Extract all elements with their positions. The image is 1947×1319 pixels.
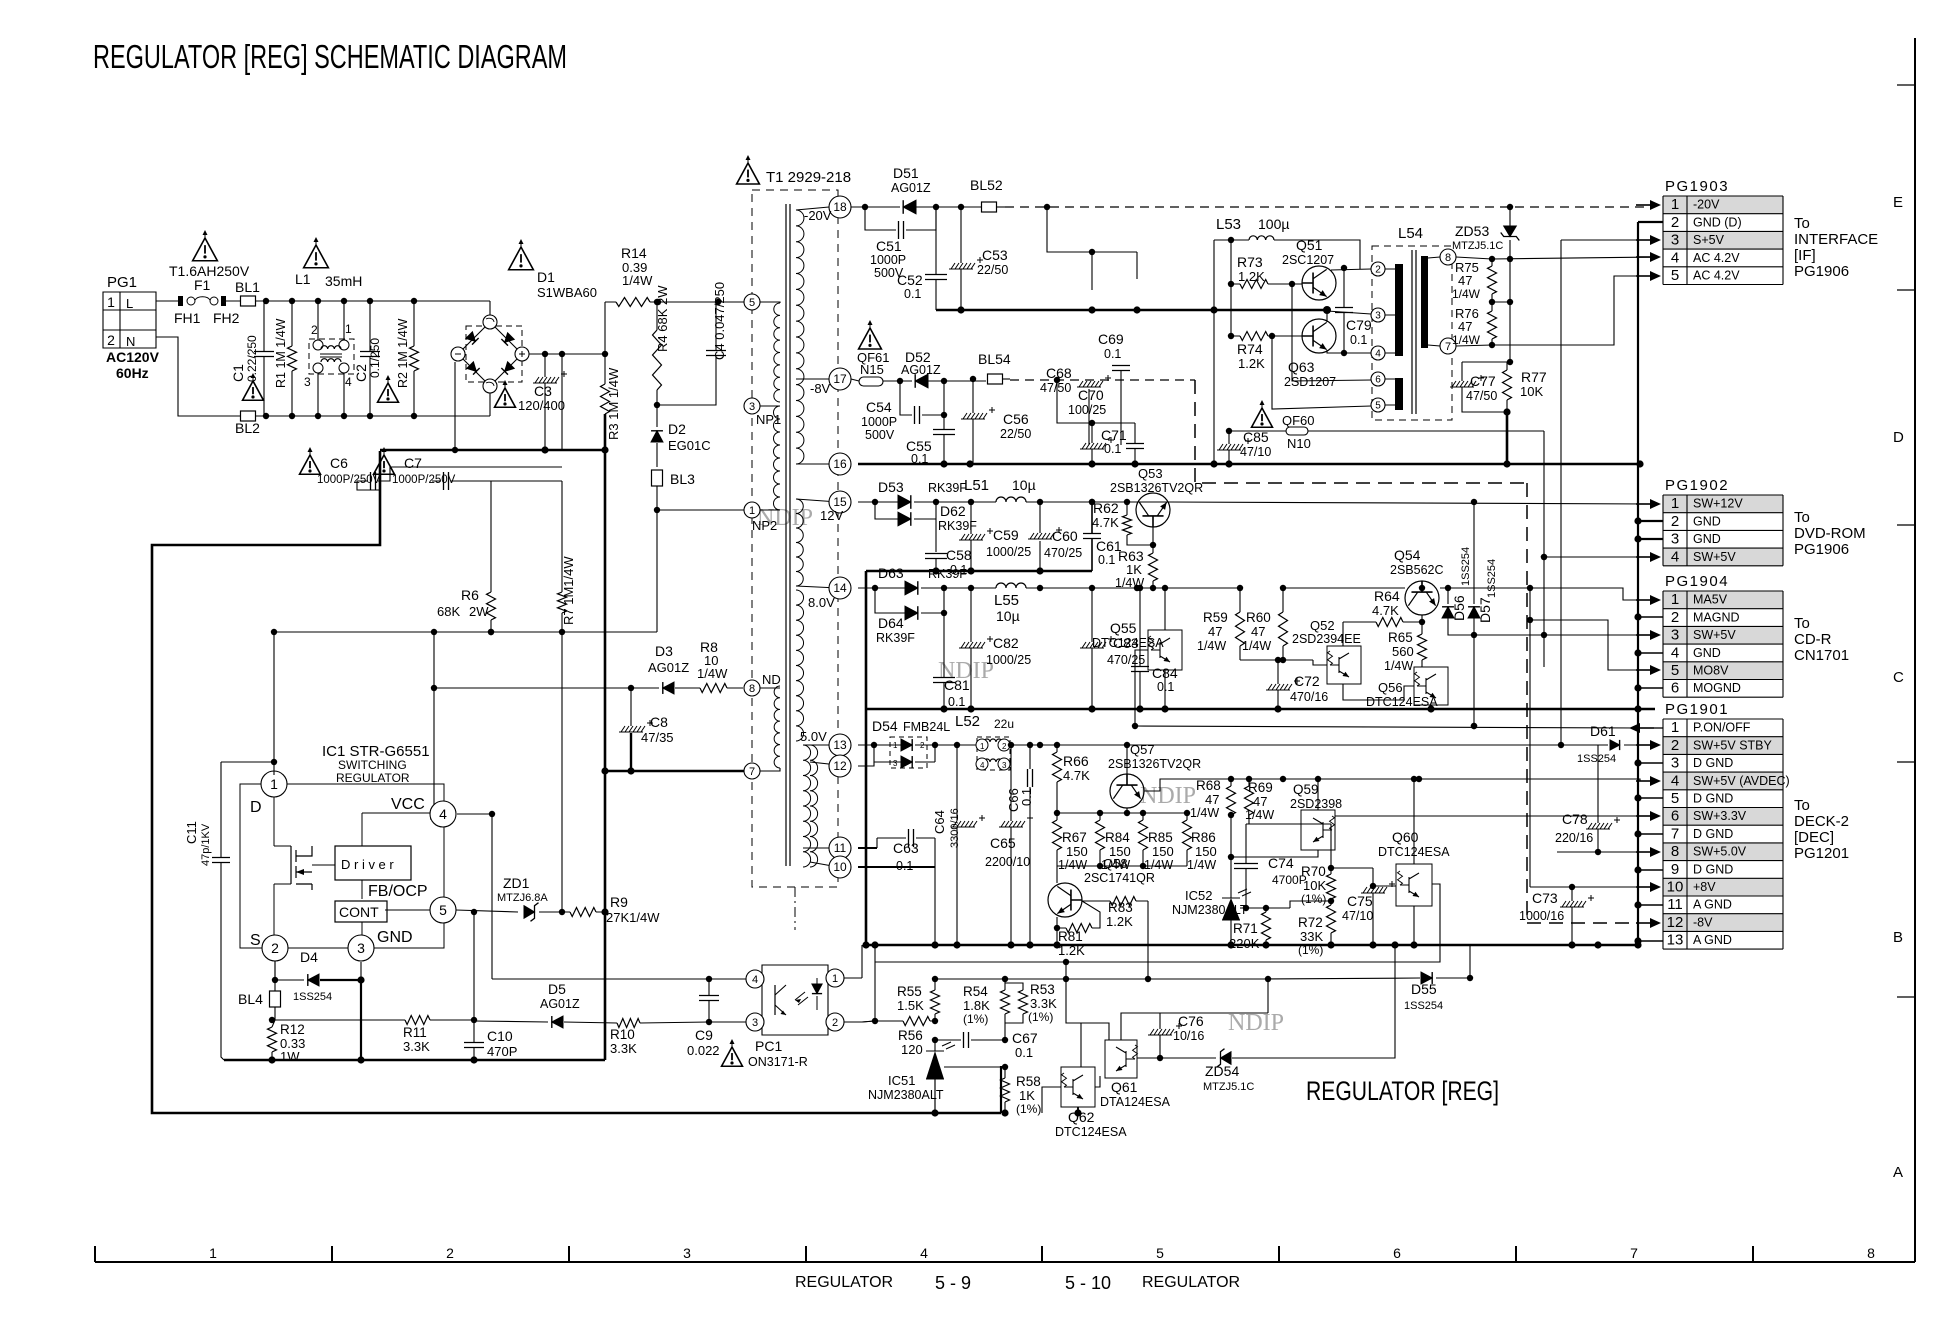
svg-text:R14: R14 — [621, 245, 647, 261]
electrolytic C77 — [1450, 362, 1510, 412]
svg-text:1000/16: 1000/16 — [1519, 909, 1564, 923]
svg-text:PG1201: PG1201 — [1794, 845, 1849, 862]
svg-text:0.1: 0.1 — [896, 859, 913, 873]
resistor R56 — [875, 1017, 935, 1058]
svg-text:1: 1 — [209, 1245, 217, 1261]
digital transistor Q59 — [1231, 776, 1342, 857]
capacitor C84 — [1131, 585, 1178, 713]
svg-text:1SS254: 1SS254 — [1577, 753, 1616, 765]
svg-text:2: 2 — [446, 1245, 454, 1261]
svg-text:PG1904: PG1904 — [1665, 573, 1729, 590]
svg-text:DVD-ROM: DVD-ROM — [1794, 525, 1866, 542]
svg-text:4: 4 — [980, 761, 985, 770]
svg-text:R77: R77 — [1521, 369, 1547, 385]
svg-text:5.0V: 5.0V — [800, 729, 827, 744]
L54 pin5 — [1371, 398, 1385, 412]
thick pin7 row — [605, 770, 744, 773]
svg-text:D5: D5 — [548, 981, 566, 997]
svg-text:To: To — [1794, 509, 1810, 526]
svg-text:R6: R6 — [461, 587, 479, 603]
transformer T1 pin18 — [796, 207, 829, 210]
svg-text:3: 3 — [1375, 311, 1381, 322]
PG1901 gnd stub 5 — [1638, 797, 1663, 799]
wire fb box top — [875, 962, 1066, 979]
svg-text:T1 2929-218: T1 2929-218 — [766, 169, 851, 186]
svg-text:C81: C81 — [944, 677, 970, 693]
electrolytic C65 — [985, 742, 1033, 949]
svg-text:Q59: Q59 — [1293, 782, 1319, 797]
svg-text:10K: 10K — [1303, 878, 1326, 893]
svg-text:GND: GND — [1693, 514, 1721, 528]
PC1 pin2 — [826, 1013, 844, 1031]
svg-text:3: 3 — [1671, 627, 1679, 644]
svg-text:0.1: 0.1 — [1019, 788, 1034, 806]
diode bridge D1 — [451, 269, 597, 393]
ferrite bead BL54 — [978, 351, 1011, 384]
wire Q59 to SW3.3 — [1335, 815, 1650, 817]
svg-text:8.0V: 8.0V — [808, 595, 835, 610]
resistor R76 — [1452, 299, 1497, 347]
wire y1005 opto row — [874, 1004, 876, 1006]
svg-text:47/50: 47/50 — [1040, 381, 1071, 395]
wire D55 right down — [1469, 945, 1471, 978]
transformer T1 dashed box — [752, 190, 838, 887]
svg-text:1: 1 — [749, 505, 755, 517]
digital transistor Q52 — [1292, 618, 1414, 700]
svg-text:3.3K: 3.3K — [403, 1039, 430, 1054]
svg-text:2W: 2W — [469, 604, 489, 619]
PG1901 gnd stub 11 — [1638, 904, 1663, 906]
svg-text:1/4W: 1/4W — [1452, 287, 1481, 301]
svg-text:14: 14 — [833, 581, 847, 595]
svg-text:C51: C51 — [876, 238, 902, 254]
svg-text:Q61: Q61 — [1111, 1079, 1138, 1095]
wire C6 left drop — [357, 481, 380, 490]
svg-text:PG1903: PG1903 — [1665, 178, 1729, 195]
L54 pin7 — [1428, 345, 1440, 346]
svg-text:10: 10 — [833, 860, 847, 874]
warning triangle C3 — [495, 380, 516, 407]
svg-text:1000P/250V: 1000P/250V — [392, 474, 456, 486]
svg-text:SW+3.3V: SW+3.3V — [1693, 809, 1747, 823]
svg-text:R74: R74 — [1237, 341, 1263, 357]
wire VCC to opto feedback — [491, 814, 493, 979]
resistor R74 — [1228, 332, 1302, 372]
resistor R10 — [610, 1019, 712, 1057]
diode D62 — [875, 502, 977, 552]
svg-text:1: 1 — [1671, 719, 1679, 736]
svg-text:D62: D62 — [940, 503, 966, 519]
svg-text:C78: C78 — [1562, 811, 1588, 827]
capacitor C1 — [230, 301, 274, 416]
svg-text:PG1906: PG1906 — [1794, 263, 1849, 280]
svg-text:1/4W: 1/4W — [1144, 858, 1173, 872]
ferrite bead BL4 — [238, 961, 281, 1020]
svg-text:35mH: 35mH — [325, 273, 362, 289]
resistor R1 — [274, 301, 297, 416]
wire fb node row — [935, 978, 1268, 980]
IC1 CONT box — [335, 901, 387, 922]
L54 pin2 — [1371, 262, 1385, 276]
svg-text:6: 6 — [1375, 375, 1381, 386]
wire C78 down — [1556, 851, 1558, 853]
svg-text:R65: R65 — [1388, 630, 1413, 645]
svg-text:7: 7 — [1445, 341, 1451, 353]
svg-text:(1%): (1%) — [1016, 1102, 1041, 1116]
wire SWP5V AVDEC vertical — [1418, 779, 1420, 798]
svg-text:2: 2 — [1671, 737, 1679, 754]
svg-text:0.1: 0.1 — [1104, 347, 1121, 361]
svg-text:5: 5 — [1671, 267, 1679, 284]
svg-text:P.ON/OFF: P.ON/OFF — [1693, 721, 1751, 735]
svg-text:D55: D55 — [1411, 981, 1437, 997]
PG1903 arrow pin1 — [1636, 204, 1650, 206]
capacitor C81 — [933, 613, 970, 713]
svg-text:D3: D3 — [655, 643, 673, 659]
capacitor C71 — [1101, 423, 1144, 464]
svg-text:0.1: 0.1 — [1104, 442, 1121, 456]
svg-text:PG1901: PG1901 — [1665, 701, 1729, 718]
svg-text:C63: C63 — [893, 840, 919, 856]
svg-text:ND: ND — [762, 672, 781, 687]
svg-text:RK39F: RK39F — [928, 567, 967, 581]
digital transistor Q60 — [1378, 776, 1450, 949]
svg-text:8: 8 — [1671, 843, 1679, 860]
warning triangle D1 — [509, 239, 534, 270]
wire PONOFF row — [1135, 726, 1640, 728]
svg-text:R64: R64 — [1374, 588, 1400, 604]
svg-text:C64: C64 — [932, 810, 947, 834]
svg-text:(1%): (1%) — [963, 1012, 988, 1026]
svg-text:NP1: NP1 — [756, 412, 781, 427]
svg-text:SW+5V STBY: SW+5V STBY — [1693, 738, 1773, 752]
warning triangle QF61 — [859, 320, 882, 349]
svg-text:5: 5 — [1671, 790, 1679, 807]
svg-text:REGULATOR: REGULATOR — [336, 771, 410, 785]
svg-text:C75: C75 — [1347, 893, 1373, 909]
wire Q62 emitter gnd — [1074, 1109, 1081, 1116]
inductor L51 — [936, 477, 1171, 505]
transformer T1 pin7 — [744, 763, 760, 779]
svg-text:A GND: A GND — [1693, 933, 1732, 947]
IC1 internal wires — [312, 813, 430, 935]
electrolytic C60 — [1028, 502, 1082, 575]
svg-text:3.3K: 3.3K — [1030, 996, 1057, 1011]
svg-text:L55: L55 — [994, 592, 1019, 609]
svg-text:GND: GND — [1693, 532, 1721, 546]
svg-text:1000P: 1000P — [861, 415, 897, 429]
svg-text:0.1: 0.1 — [1098, 553, 1115, 567]
svg-text:2: 2 — [832, 1017, 838, 1029]
svg-text:D2: D2 — [668, 421, 686, 437]
PG1901 arrow pin2 — [1636, 744, 1650, 746]
resistor R2 — [396, 301, 419, 416]
thick vertical 866 — [865, 571, 868, 709]
svg-text:47: 47 — [1253, 794, 1267, 809]
svg-text:DTA124ESA: DTA124ESA — [1100, 1095, 1171, 1109]
svg-text:C8: C8 — [650, 714, 668, 730]
optocoupler PC1 — [762, 965, 828, 1035]
svg-text:C3: C3 — [534, 383, 552, 399]
transformer T1 primary winding upper — [774, 303, 780, 402]
svg-text:L54: L54 — [1398, 225, 1423, 242]
svg-text:22/50: 22/50 — [977, 263, 1008, 277]
resistor R11 — [403, 1016, 477, 1055]
PG1903 destination text — [1794, 215, 1878, 280]
IC1 Driver box — [335, 846, 411, 880]
svg-text:10/16: 10/16 — [1173, 1029, 1204, 1043]
svg-text:ZD1: ZD1 — [503, 875, 530, 891]
svg-text:R62: R62 — [1093, 500, 1119, 516]
svg-text:47: 47 — [1458, 273, 1472, 288]
PG1904 pin2 stub — [1638, 616, 1663, 618]
svg-text:C4 0.047/250: C4 0.047/250 — [712, 282, 727, 360]
svg-text:13: 13 — [1667, 932, 1684, 949]
svg-text:6: 6 — [1393, 1245, 1401, 1261]
svg-text:10µ: 10µ — [996, 608, 1020, 624]
diode D56 — [1442, 547, 1477, 638]
svg-text:2200/10: 2200/10 — [985, 855, 1030, 869]
svg-text:47/10: 47/10 — [1342, 909, 1373, 923]
svg-text:0.1: 0.1 — [1350, 333, 1367, 347]
svg-text:4: 4 — [1671, 548, 1679, 565]
svg-text:DECK-2: DECK-2 — [1794, 813, 1849, 830]
ferrite bead BL3 — [652, 470, 745, 632]
svg-text:D51: D51 — [893, 165, 919, 181]
svg-text:FH1: FH1 — [174, 310, 201, 326]
resistor R58 — [1001, 1067, 1042, 1117]
wire bridge plus up to R14 — [604, 302, 606, 354]
svg-text:3: 3 — [304, 375, 311, 389]
svg-text:A GND: A GND — [1693, 898, 1732, 912]
svg-text:4: 4 — [1671, 644, 1679, 661]
svg-text:R56: R56 — [898, 1028, 923, 1043]
capacitor C61 — [1083, 499, 1122, 571]
svg-text:47p/1KV: 47p/1KV — [200, 823, 212, 866]
svg-text:4: 4 — [1671, 772, 1679, 789]
ferrite bead BL2 — [235, 411, 260, 436]
svg-text:R72: R72 — [1298, 915, 1323, 930]
svg-text:0.1: 0.1 — [1015, 1045, 1033, 1060]
svg-text:[IF]: [IF] — [1794, 247, 1816, 264]
svg-text:R53: R53 — [1030, 982, 1055, 997]
svg-text:2: 2 — [1002, 742, 1007, 751]
resistor R68 — [1190, 778, 1236, 820]
transistor Q54 — [1390, 547, 1444, 622]
svg-text:B: B — [1893, 929, 1903, 946]
wire 5V rail after L52 — [1010, 744, 1561, 746]
electrolytic C76 — [1148, 1013, 1204, 1061]
transformer T1 pin17 — [796, 378, 829, 380]
PG1904 arrow pin5 — [1636, 669, 1650, 671]
svg-text:5 - 9: 5 - 9 — [935, 1273, 971, 1293]
wire +8V feed vertical — [1529, 588, 1531, 887]
bottom ruler line — [95, 1246, 1915, 1262]
svg-text:R1 1M 1/4W: R1 1M 1/4W — [274, 318, 288, 388]
transformer T1 pin3 NP1 — [744, 398, 760, 414]
svg-text:S: S — [250, 932, 261, 949]
wire to bridge vertices — [489, 301, 491, 416]
svg-text:3: 3 — [1671, 531, 1679, 548]
svg-text:N15: N15 — [860, 362, 884, 377]
wire C70 drop — [1057, 380, 1135, 423]
svg-text:N10: N10 — [1287, 436, 1311, 451]
svg-text:CN1701: CN1701 — [1794, 647, 1849, 664]
wire ZD53 down to C77 — [1509, 302, 1511, 362]
electrolytic C83 — [1080, 588, 1145, 713]
resistor R70 — [1301, 824, 1336, 906]
wire pin1 up to node — [273, 632, 275, 775]
svg-text:33K: 33K — [1300, 929, 1323, 944]
svg-text:2: 2 — [1671, 609, 1679, 626]
svg-text:47: 47 — [1458, 319, 1472, 334]
capacitor C63 — [877, 829, 935, 873]
transformer T1 pin5 — [744, 294, 760, 310]
svg-text:Q60: Q60 — [1392, 829, 1419, 845]
svg-text:2: 2 — [311, 323, 318, 337]
svg-text:2: 2 — [1671, 214, 1679, 231]
svg-text:C73: C73 — [1532, 890, 1558, 906]
resistor R54 — [963, 979, 1010, 1043]
wire C52 branch — [935, 207, 937, 310]
wire opto2 row — [862, 1021, 874, 1022]
svg-text:3: 3 — [749, 401, 755, 413]
wire R75 R76 mid to ZD53 — [1492, 301, 1510, 303]
svg-text:SW+5.0V: SW+5.0V — [1693, 845, 1747, 859]
svg-text:8: 8 — [749, 683, 755, 695]
inductor L55 — [944, 583, 1240, 624]
svg-text:68K: 68K — [437, 604, 460, 619]
svg-text:Q52: Q52 — [1310, 618, 1335, 633]
resistor R86 — [1183, 813, 1217, 872]
svg-text:PG1: PG1 — [107, 274, 137, 291]
warning triangle C1 — [243, 373, 264, 400]
svg-text:4.7K: 4.7K — [1092, 515, 1119, 530]
svg-text:12V: 12V — [820, 508, 843, 523]
capacitor C69 — [1098, 331, 1130, 445]
svg-text:AC 4.2V: AC 4.2V — [1693, 269, 1740, 283]
svg-text:3: 3 — [357, 940, 365, 956]
svg-text:NJM2380ALT: NJM2380ALT — [868, 1088, 944, 1102]
svg-text:C11: C11 — [184, 821, 199, 844]
svg-text:D53: D53 — [878, 479, 904, 495]
resistor R7 — [558, 481, 577, 912]
capacitor C2 — [353, 301, 382, 416]
bottom sheet captions — [795, 1273, 1240, 1293]
zener ZD1 — [497, 875, 565, 921]
svg-text:Q56: Q56 — [1378, 680, 1403, 695]
svg-text:GND: GND — [377, 929, 413, 946]
svg-text:ZD54: ZD54 — [1205, 1063, 1239, 1079]
thick GND(D) vertical — [1637, 222, 1639, 945]
svg-text:60Hz: 60Hz — [116, 365, 149, 381]
svg-text:R9: R9 — [610, 894, 628, 910]
ferrite bead BL1 — [235, 279, 260, 306]
svg-text:R3 1M 1/4W: R3 1M 1/4W — [606, 367, 621, 440]
svg-text:R12: R12 — [280, 1022, 305, 1037]
diode D51 — [851, 165, 982, 214]
svg-text:C71: C71 — [1101, 427, 1127, 443]
wire C7 left lead — [420, 480, 432, 482]
ferrite bead BL52 — [970, 177, 1005, 212]
electrolytic C59 — [959, 502, 1031, 575]
wire IC52 top — [1230, 815, 1232, 893]
wire T1 pin5 — [743, 301, 745, 303]
IC1 pin5 wire — [456, 910, 518, 912]
IC1 labels — [322, 743, 430, 785]
svg-text:IC51: IC51 — [888, 1073, 915, 1088]
electrolytic C3 — [518, 354, 567, 451]
capacitor C66 — [1006, 745, 1034, 945]
PC1 labels — [722, 1038, 808, 1069]
shunt regulator IC51 — [868, 1040, 955, 1113]
PC1 pin1 — [826, 969, 844, 987]
capacitor C52 — [897, 272, 947, 301]
zener ZD53 — [1452, 207, 1519, 302]
svg-text:2SD2398: 2SD2398 — [1290, 797, 1342, 811]
warning triangle F1 — [193, 230, 218, 261]
PG1901 destination text — [1794, 797, 1849, 862]
svg-text:10K: 10K — [1520, 384, 1543, 399]
svg-text:GND (D): GND (D) — [1693, 215, 1742, 229]
resistor R63 — [1115, 545, 1158, 591]
wire Q62 out to Q61 — [1095, 1076, 1100, 1087]
svg-text:8: 8 — [1867, 1245, 1875, 1261]
svg-text:2: 2 — [1375, 265, 1381, 276]
svg-text:PC1: PC1 — [755, 1038, 782, 1054]
wire Q62 base row — [1042, 1087, 1061, 1113]
resistor R4 — [653, 285, 671, 405]
resistor R53 — [1005, 982, 1057, 1024]
svg-text:R70: R70 — [1301, 864, 1326, 879]
svg-text:27K1/4W: 27K1/4W — [606, 910, 660, 925]
diode D54 module — [858, 718, 950, 768]
svg-text:1: 1 — [345, 322, 352, 336]
electrolytic C56 — [961, 376, 1031, 464]
PG1901 gnd stub 13 — [1638, 940, 1663, 942]
diode D61 — [1577, 723, 1620, 765]
svg-text:+8V: +8V — [1693, 880, 1716, 894]
svg-text:1SS254: 1SS254 — [1486, 559, 1498, 598]
inductor L53 — [1214, 216, 1360, 269]
PG1903 gnd stub pin2 — [1638, 221, 1663, 223]
svg-text:5: 5 — [1375, 401, 1381, 412]
svg-text:5: 5 — [1671, 662, 1679, 679]
PG1901 arrow pin12 dashed — [1636, 922, 1650, 924]
wire x562 upper — [561, 448, 563, 450]
svg-text:Q54: Q54 — [1394, 547, 1421, 563]
svg-text:C: C — [1893, 669, 1904, 686]
svg-text:6: 6 — [1671, 808, 1679, 825]
svg-text:13: 13 — [833, 738, 847, 752]
wire D61 feed — [1561, 744, 1636, 746]
svg-text:C59: C59 — [993, 527, 1019, 543]
svg-text:100/25: 100/25 — [1068, 403, 1106, 417]
svg-text:SW+5V: SW+5V — [1693, 628, 1736, 642]
svg-text:NDIP: NDIP — [1140, 783, 1196, 809]
svg-text:MOGND: MOGND — [1693, 681, 1741, 695]
svg-text:Q58: Q58 — [1103, 856, 1128, 871]
svg-text:DTC124ESA: DTC124ESA — [1055, 1125, 1127, 1139]
svg-text:MTZJ5.1C: MTZJ5.1C — [1203, 1081, 1254, 1093]
svg-text:C54: C54 — [866, 399, 892, 415]
svg-text:0.1: 0.1 — [904, 287, 921, 301]
electrolytic C8 — [619, 688, 674, 775]
svg-text:MTZJ6.8A: MTZJ6.8A — [497, 892, 548, 904]
svg-text:5 - 10: 5 - 10 — [1065, 1273, 1111, 1293]
svg-text:D61: D61 — [1590, 723, 1616, 739]
svg-text:1: 1 — [107, 294, 115, 310]
